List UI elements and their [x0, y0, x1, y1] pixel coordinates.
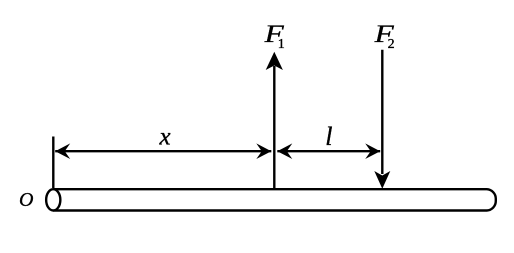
label x: [159, 123, 171, 150]
rod (lever bar): [53, 189, 496, 210]
label l: [325, 122, 332, 151]
dimension line x: [55, 143, 271, 159]
svg-text:1: 1: [278, 37, 285, 52]
label F1: [263, 21, 284, 52]
dimension line l: [277, 143, 380, 159]
svg-text:2: 2: [388, 37, 395, 52]
svg-text:O: O: [19, 189, 33, 211]
rod left end cap ellipse (pivot at O): [46, 189, 60, 210]
label O (pivot point): [19, 189, 33, 211]
force F1 arrow (upward): [266, 52, 283, 189]
svg-text:x: x: [159, 123, 171, 150]
svg-text:l: l: [325, 122, 332, 151]
extension tick line above O: [52, 137, 54, 189]
force F2 arrow (downward): [374, 50, 390, 189]
label F2: [373, 21, 394, 52]
